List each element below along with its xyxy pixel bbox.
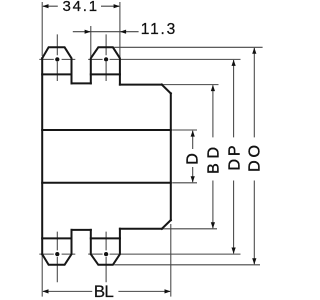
hub bottom surface	[120, 228, 162, 230]
extension DP bottom (pitch line)	[110, 253, 241, 255]
arrow BD down	[211, 222, 215, 228]
extension line BL right	[170, 224, 172, 297]
dot T3	[55, 252, 59, 256]
thin lines: extensions, dimension lines, centerlines	[39, 2, 262, 297]
arrow BD up	[211, 85, 215, 91]
extension DP top (pitch line)	[110, 58, 241, 60]
arrow 11.3 left (outside, points right)	[85, 30, 91, 34]
extension line 34.1 left / part left face above	[41, 2, 43, 56]
arrow DO up	[252, 48, 256, 54]
sprocket outline thick strokes	[42, 47, 171, 264]
arrow 11.3 right (outside, points left)	[120, 30, 126, 34]
svg-text:34.1: 34.1	[63, 0, 99, 15]
centerline T4 horizontal left dash	[88, 253, 102, 255]
tooth T4 bottom-right	[91, 229, 120, 265]
bore lower line	[42, 182, 171, 184]
dimension line 34.1	[43, 5, 119, 7]
tooth T4 root line	[91, 237, 120, 239]
extension line BL left	[41, 254, 43, 296]
tooth T1 root line	[42, 73, 71, 75]
extension line 34.1 right	[119, 2, 121, 57]
centerline T1 vertical	[56, 34, 58, 81]
svg-text:BD: BD	[206, 142, 223, 174]
svg-text:BL: BL	[94, 282, 114, 300]
extension BD bottom	[162, 228, 217, 230]
dimension line DO vertical	[253, 48, 255, 264]
arrowheads	[42, 4, 256, 293]
extension D upper	[172, 129, 197, 131]
dimension line 11.3	[73, 31, 139, 33]
dimension line BL	[43, 290, 170, 292]
hub bottom chamfer	[162, 220, 171, 229]
arrow BL left	[42, 289, 48, 293]
centerline T2 horizontal left dash	[88, 58, 102, 60]
arrow BL right	[165, 289, 171, 293]
slot between plates bottom	[72, 229, 91, 231]
centerline T2 vertical	[105, 34, 107, 81]
hub right face	[170, 93, 172, 220]
extension line 11.3 left	[90, 26, 92, 57]
arrow 34.1 right	[114, 4, 120, 8]
tooth T3 root line	[42, 237, 71, 239]
tooth T2 root line	[91, 73, 120, 75]
arrow DP up	[232, 60, 236, 66]
extension DO top	[114, 46, 262, 48]
dimension line DP vertical	[233, 60, 235, 254]
bore upper line	[42, 129, 171, 131]
svg-text:DP: DP	[226, 143, 243, 171]
dimension texts	[63, 0, 264, 300]
svg-text:11.3: 11.3	[141, 21, 177, 38]
tooth T3 bottom-left	[42, 230, 71, 265]
svg-text:DO: DO	[246, 142, 263, 172]
centerline T3 vertical	[56, 232, 58, 283]
extension DO bottom	[114, 264, 260, 266]
hub top surface	[120, 84, 162, 86]
svg-text:D: D	[184, 153, 201, 165]
tooth T2 top-right	[91, 47, 120, 84]
extension BD top	[162, 84, 219, 86]
dimension line BD vertical	[212, 85, 214, 228]
arrow DP down	[232, 248, 236, 254]
arrow D up	[191, 130, 195, 136]
arrow DO down	[252, 258, 256, 264]
dot T1	[55, 57, 59, 61]
centerline T3 horizontal	[39, 253, 75, 255]
dimension line D vertical	[192, 131, 194, 182]
extension D lower	[172, 182, 197, 184]
hub top chamfer	[162, 85, 171, 94]
center dots	[55, 57, 108, 256]
dot T2	[104, 57, 108, 61]
arrow D down	[191, 176, 195, 182]
arrow 34.1 left	[42, 4, 48, 8]
slot between plates top	[72, 82, 91, 84]
tooth T1 top-left	[42, 47, 71, 83]
dot T4	[104, 252, 108, 256]
centerline T1 horizontal	[39, 58, 75, 60]
left face	[41, 58, 43, 254]
centerline T4 vertical	[105, 232, 107, 283]
